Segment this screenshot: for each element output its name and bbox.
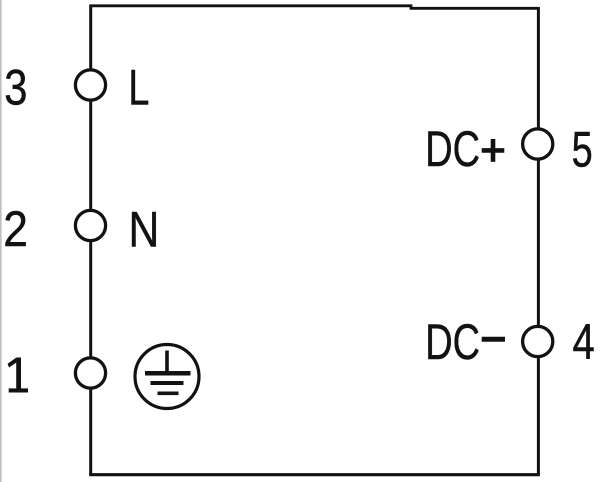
svg-text:N: N — [129, 201, 160, 257]
pin number 1 — [8, 358, 28, 393]
terminal 5 (DC+) — [523, 129, 553, 159]
svg-text:3: 3 — [4, 59, 27, 116]
wire left side (L/N/PE rail) — [89, 5, 92, 476]
wire top edge of enclosure box — [90, 6, 538, 9]
terminal 1 (PE) — [75, 358, 105, 388]
minus sign of DC- — [482, 337, 505, 342]
pin number 5 — [572, 123, 593, 178]
svg-text:DC: DC — [425, 315, 480, 370]
terminal 2 (N) — [75, 210, 105, 240]
label DC+ — [425, 122, 480, 177]
pin number 2 — [3, 202, 28, 258]
label L — [128, 60, 149, 115]
protective earth bar middle — [151, 381, 184, 385]
terminal 3 (L) — [75, 70, 105, 100]
protective earth stem — [165, 351, 169, 374]
svg-text:2: 2 — [3, 202, 28, 258]
protective earth bar long — [145, 371, 191, 376]
label DC- — [425, 315, 480, 370]
pin number 3 — [4, 59, 27, 116]
svg-text:DC: DC — [425, 122, 480, 177]
pin number 4 — [573, 314, 595, 370]
wire right side (DC rail) — [537, 7, 540, 476]
svg-text:5: 5 — [572, 123, 593, 178]
plus sign of DC+ — [482, 139, 505, 162]
protective earth bar short — [158, 392, 179, 396]
terminal 4 (DC-) — [523, 326, 553, 356]
label N — [129, 201, 160, 257]
protective earth symbol circle — [135, 345, 199, 409]
svg-text:L: L — [128, 60, 149, 115]
svg-text:4: 4 — [573, 314, 595, 370]
wire bottom edge of enclosure box — [89, 473, 539, 476]
scan edge artifact left — [0, 0, 2, 482]
